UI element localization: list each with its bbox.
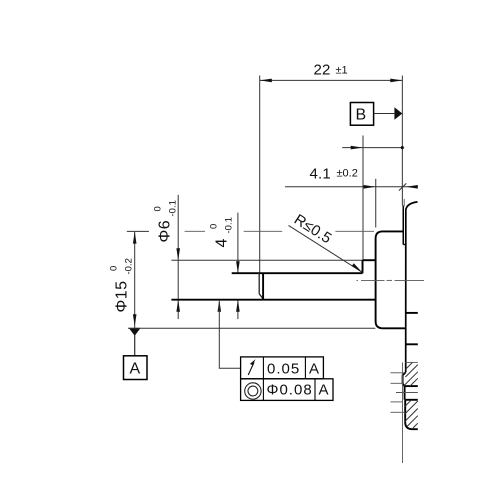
extension line right of 22 dim / datum B target line — [401, 76, 403, 206]
svg-text:A: A — [309, 361, 320, 378]
svg-text:22: 22 — [314, 62, 331, 79]
extension line x=363 — [362, 136, 364, 271]
svg-text:-0.1: -0.1 — [168, 200, 179, 216]
svg-text:4: 4 — [214, 238, 231, 247]
dimension 4.1 ±0.2 line — [285, 183, 418, 190]
datum A triangle — [129, 328, 141, 336]
datum B leader — [374, 113, 395, 115]
datum A leader — [134, 336, 136, 356]
svg-text:0.05: 0.05 — [267, 361, 300, 378]
housing body face and top arc — [406, 202, 418, 372]
phi15 bottom extension line y=328.3 — [128, 327, 375, 329]
shaft flat top edge y=273.2 — [232, 272, 363, 274]
datum B filled triangle — [394, 107, 402, 119]
svg-text:0: 0 — [153, 206, 164, 211]
note R<=0.5 text — [291, 211, 335, 247]
bore tooth top edge y=399.8 — [405, 399, 418, 401]
phi15 dimension text rotated — [109, 258, 135, 312]
phi6 dimension line with outside arrows — [176, 195, 180, 319]
svg-text:B: B — [356, 107, 367, 124]
feature control frame row 2: concentricity phi0.08 A — [241, 379, 333, 401]
bore wall x=405.2 with bottom fillet — [405, 400, 418, 429]
hatch band 1 — [404, 362, 418, 386]
svg-text:-0.1: -0.1 — [224, 217, 235, 233]
svg-text:Φ6: Φ6 — [157, 220, 174, 243]
svg-text:Φ0.08: Φ0.08 — [267, 382, 313, 399]
housing chamfer into bore wall — [403, 372, 406, 386]
collar top edge y=260.2 — [363, 259, 376, 261]
svg-text:A: A — [130, 361, 141, 378]
extension line left of 22 dim — [259, 76, 261, 273]
phi15 top extension tick — [127, 230, 149, 232]
svg-text:4.1: 4.1 — [310, 166, 331, 183]
feature control frame leader arrow — [218, 300, 241, 369]
datum A box — [124, 356, 148, 380]
flange phi15 outline — [376, 231, 406, 328]
flange lip wall right x=403.3 — [402, 206, 406, 245]
housing step y=344.3 — [405, 343, 418, 345]
dimension 4.1 ±0.2 text — [310, 166, 358, 183]
dimension 22 ±1 line — [260, 79, 403, 83]
hatch band 1 top boundary — [405, 361, 417, 363]
thread end full line x=263 — [262, 273, 264, 300]
collar step vertical x=362.5 — [362, 260, 364, 273]
bore wall x=404.6 — [404, 386, 406, 400]
datum B symbol box — [350, 103, 373, 126]
dimension 4 line with outside arrows — [236, 213, 240, 320]
phi15 dimension line — [133, 232, 137, 356]
bore feature ticks left — [391, 373, 418, 413]
extension line for 4.1 dim x=375.75 — [375, 179, 377, 228]
svg-text:0: 0 — [109, 266, 120, 271]
svg-text:A: A — [319, 382, 330, 399]
hatch band 2 — [405, 400, 418, 428]
centerline dash-dot y=280.4 — [357, 279, 425, 281]
shaft bottom edge y=299.7 — [171, 299, 375, 301]
note R<=0.5 leader — [289, 225, 363, 272]
bore tooth top edge y=386.1 — [405, 385, 418, 387]
phi6 top extension line y=260.25 — [171, 259, 362, 261]
thin vertical above lip x=404.2 — [403, 199, 405, 206]
phi6 dimension text rotated — [153, 200, 179, 242]
thread end line with chamfer x=259 — [259, 273, 263, 298]
dimension 4 0/-0.1 text rotated — [209, 217, 235, 247]
svg-text:±1: ±1 — [336, 65, 348, 77]
svg-text:±0.2: ±0.2 — [337, 168, 358, 180]
svg-text:Φ15: Φ15 — [114, 280, 131, 312]
svg-text:0: 0 — [209, 224, 220, 229]
housing step y=312.9 — [405, 312, 418, 314]
feature control frame row 1: circular runout 0.05 A — [241, 357, 324, 379]
bore minor extension vertical x=402.5 — [402, 363, 404, 464]
dimension 22 ±1 text — [314, 62, 348, 79]
flange top extension line segments y=231.4 — [185, 230, 374, 232]
unlabelled reference dimension line at y=148 — [342, 146, 404, 150]
svg-text:-0.2: -0.2 — [124, 258, 135, 274]
